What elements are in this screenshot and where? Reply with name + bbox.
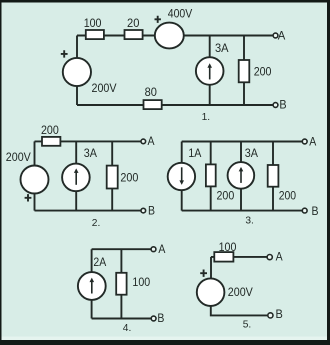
- current source 2A (circuit 4): [78, 272, 106, 300]
- svg-text:200V: 200V: [92, 82, 117, 95]
- wire: top rail circuit 4: [92, 248, 152, 250]
- wire: 200 ohm branch 2 circuit 3: [272, 142, 274, 211]
- wire: 200 ohm branch circuit 2: [111, 141, 113, 210]
- terminal A (circuit 3): [302, 139, 307, 144]
- terminal B (circuit 4): [151, 316, 156, 321]
- resistor 200 horizontal (circuit 2): [42, 137, 60, 146]
- current source 3A (circuit 1): [196, 57, 224, 85]
- voltage source 200V (circuit 5): [197, 278, 225, 306]
- wire: top rail circuit 3: [182, 141, 303, 143]
- voltage source 400V (circuit 1): [155, 23, 184, 49]
- svg-text:200: 200: [217, 190, 235, 203]
- svg-text:80: 80: [145, 86, 158, 99]
- wire: top rail circuit 1: [77, 35, 273, 37]
- svg-text:400V: 400V: [168, 7, 193, 20]
- svg-text:B: B: [279, 99, 286, 112]
- svg-text:B: B: [157, 312, 164, 325]
- svg-text:200: 200: [120, 171, 138, 184]
- terminal A (circuit 5): [267, 255, 272, 260]
- wire: left branch circuit 5: [210, 257, 212, 280]
- svg-text:2.: 2.: [92, 218, 101, 229]
- svg-text:3A: 3A: [245, 147, 258, 160]
- circuit 4: [78, 243, 166, 334]
- svg-text:B: B: [312, 205, 319, 218]
- terminal B (circuit 3): [302, 208, 307, 213]
- svg-text:20: 20: [127, 17, 140, 30]
- terminal B (circuit 5): [268, 313, 273, 318]
- svg-text:100: 100: [84, 17, 102, 30]
- wire: 3A source branch circuit 1: [209, 36, 211, 106]
- svg-text:200V: 200V: [228, 286, 253, 299]
- svg-text:3.: 3.: [245, 216, 254, 227]
- resistor 200 vertical (circuit 2): [107, 166, 118, 189]
- wire: left source branch circuit 1: [76, 36, 78, 106]
- circuit 5: [197, 241, 283, 331]
- wire: bottom rail circuit 3: [182, 210, 303, 212]
- terminal A (circuit 4): [151, 247, 156, 252]
- svg-text:A: A: [278, 29, 286, 42]
- circuit 1: [61, 7, 287, 123]
- wire: left source branch circuit 2: [34, 141, 36, 210]
- wire: 100 ohm branch circuit 4: [120, 249, 122, 318]
- voltage source 200V (circuit 2): [21, 166, 49, 194]
- svg-text:200: 200: [279, 190, 297, 203]
- wire: 2A source branch circuit 4: [91, 249, 93, 318]
- terminal A (circuit 2): [141, 139, 146, 144]
- svg-text:2A: 2A: [93, 256, 106, 269]
- svg-text:200V: 200V: [6, 151, 31, 164]
- svg-text:B: B: [275, 308, 282, 321]
- svg-text:4.: 4.: [123, 323, 132, 334]
- circuit 2: [6, 124, 155, 229]
- resistor 20 (circuit 1): [125, 30, 143, 39]
- resistor 100 (circuit 1): [86, 30, 104, 39]
- svg-text:A: A: [158, 243, 165, 256]
- wire: 3A source branch circuit 2: [75, 141, 77, 210]
- wire: 1A source branch circuit 3: [181, 142, 183, 211]
- current source 3A (circuit 3): [228, 162, 255, 189]
- wire: top rail circuit 2: [35, 140, 142, 142]
- resistor 200 vertical 1 (circuit 3): [206, 164, 216, 186]
- resistor 100 vertical (circuit 4): [116, 273, 126, 295]
- svg-text:1A: 1A: [188, 147, 201, 160]
- svg-text:B: B: [148, 205, 155, 218]
- svg-text:100: 100: [219, 241, 237, 254]
- terminal A (circuit 1): [273, 33, 278, 38]
- terminal B (circuit 2): [141, 208, 146, 213]
- resistor 80 (circuit 1): [144, 100, 162, 109]
- svg-text:1.: 1.: [202, 112, 211, 123]
- resistor 200 vertical (circuit 1): [239, 60, 250, 82]
- resistor 200 vertical 2 (circuit 3): [268, 165, 279, 187]
- svg-text:200: 200: [41, 124, 59, 137]
- svg-text:5.: 5.: [243, 320, 252, 331]
- resistor 100 (circuit 5): [214, 252, 233, 262]
- wire: bottom rail circuit 4: [92, 318, 152, 320]
- wire: bottom rail circuit 1: [77, 104, 273, 106]
- voltage source 200V (circuit 1): [63, 58, 91, 86]
- current source 1A (circuit 3): [168, 163, 195, 190]
- terminal B (circuit 1): [273, 103, 278, 108]
- wire: bottom wire circuit 5: [211, 303, 268, 315]
- circuit 3: [168, 136, 319, 227]
- svg-text:3A: 3A: [84, 147, 97, 160]
- wire: 200 ohm branch 1 circuit 3: [210, 142, 212, 211]
- current source 3A (circuit 2): [62, 164, 90, 192]
- wire: 200 ohm branch circuit 1: [243, 36, 245, 106]
- svg-text:3A: 3A: [215, 42, 229, 55]
- wire: top wire circuit 5: [211, 256, 267, 258]
- svg-text:A: A: [148, 135, 155, 148]
- svg-text:A: A: [309, 136, 316, 149]
- wire: 3A source branch circuit 3: [240, 142, 242, 211]
- svg-text:A: A: [276, 251, 283, 264]
- svg-text:200: 200: [254, 66, 272, 79]
- svg-text:100: 100: [132, 276, 150, 289]
- wire: bottom rail circuit 2: [35, 210, 142, 212]
